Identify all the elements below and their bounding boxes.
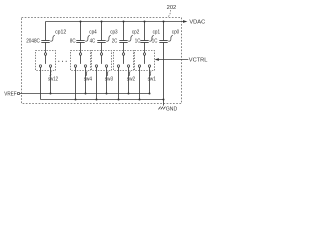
cp0 top plate bbox=[159, 40, 167, 42]
capacitor cp2 value 2C bbox=[112, 22, 140, 45]
svg-text:sw2: sw2 bbox=[127, 77, 135, 83]
capacitor cp3 value 4C bbox=[90, 22, 118, 45]
junction node on ground bus bbox=[139, 99, 141, 101]
cp12 bottom plate bbox=[41, 42, 49, 44]
sw4 throw terminal to VREF bus bbox=[84, 65, 86, 67]
wire rail to cp12 top plate bbox=[45, 22, 47, 41]
leader line from 202 to block bbox=[168, 10, 171, 17]
capacitor cp4 value 8C bbox=[70, 22, 97, 45]
leader hook for cp2 bbox=[128, 35, 133, 41]
junction node cp0 on rail bbox=[163, 21, 165, 23]
sw12 pole lever bbox=[45, 55, 47, 64]
cp2 top plate bbox=[119, 40, 127, 42]
wire VCTRL bbox=[159, 59, 189, 61]
junction node on VREF bus bbox=[50, 93, 52, 95]
leader hook for cp12 bbox=[50, 35, 55, 41]
sw2 pole lever bbox=[123, 55, 125, 64]
wire sw2 left throw to ground bus bbox=[118, 67, 120, 99]
wire sw12 right throw to VREF bus bbox=[50, 67, 52, 93]
svg-text:sw12: sw12 bbox=[48, 77, 58, 83]
wire cp0 bottom plate down to ground bbox=[163, 43, 165, 106]
wire sw4 left throw to ground bus bbox=[75, 67, 77, 99]
junction node on VREF bus bbox=[85, 93, 87, 95]
junction node on VREF bus bbox=[149, 93, 151, 95]
dashed box of sw12 bbox=[36, 51, 56, 71]
junction node on VREF bus bbox=[106, 93, 108, 95]
wire rail to cp0 top plate bbox=[163, 22, 165, 41]
sw4 common terminal bbox=[79, 53, 81, 55]
wire rail to cp1 top plate bbox=[144, 22, 146, 41]
sw3 throw terminal to VREF bus bbox=[105, 65, 107, 67]
leader hook for sw12 bbox=[50, 72, 52, 76]
svg-text:sw3: sw3 bbox=[105, 77, 113, 83]
leader hook for cp1 bbox=[149, 35, 154, 41]
svg-text:sw4: sw4 bbox=[84, 77, 92, 83]
capacitor cp12 value 2048C bbox=[26, 22, 66, 45]
svg-text:VREF: VREF bbox=[4, 91, 17, 97]
cp2 bottom plate bbox=[119, 42, 127, 44]
sw4 pole lever bbox=[80, 55, 82, 64]
cp1 bottom plate bbox=[140, 42, 148, 44]
svg-text:cp12: cp12 bbox=[55, 29, 66, 35]
svg-text:VDAC: VDAC bbox=[189, 20, 205, 26]
dashed box of sw4 bbox=[71, 51, 91, 71]
sw12 throw terminal to VREF bus bbox=[49, 65, 51, 67]
svg-text:202: 202 bbox=[167, 5, 177, 11]
wire cp2 bottom plate to switch common bbox=[123, 43, 125, 53]
sw3 common terminal bbox=[100, 53, 102, 55]
svg-text:cp4: cp4 bbox=[89, 29, 97, 35]
svg-text:GND: GND bbox=[166, 107, 177, 113]
VDAC output arrowhead bbox=[183, 20, 187, 23]
svg-text:8C: 8C bbox=[70, 38, 76, 44]
leader hook for sw2 bbox=[128, 72, 130, 76]
leader hook for sw4 bbox=[85, 72, 87, 76]
cp1 top plate bbox=[140, 40, 148, 42]
switch sw12 bbox=[36, 51, 59, 100]
wire sw1 right throw to VREF bus bbox=[149, 67, 151, 93]
capacitor cp0 value 1C bbox=[152, 22, 180, 45]
junction node cp4 on rail bbox=[80, 21, 82, 23]
switch sw2 bbox=[114, 51, 136, 101]
sw1 pole lever bbox=[144, 55, 146, 64]
junction node on VREF bus bbox=[128, 93, 130, 95]
svg-text:1C: 1C bbox=[152, 38, 158, 44]
sw3 throw terminal to ground bus bbox=[95, 65, 97, 67]
dashed box of sw2 bbox=[114, 51, 134, 71]
sw1 throw terminal to VREF bus bbox=[148, 65, 150, 67]
junction node cp2 on rail bbox=[123, 21, 125, 23]
wire sw12 left throw to ground bus bbox=[40, 67, 42, 99]
sw12 common terminal bbox=[44, 53, 46, 55]
svg-text:1C: 1C bbox=[135, 38, 141, 44]
switch sw4 bbox=[71, 51, 93, 101]
svg-text:cp0: cp0 bbox=[172, 29, 180, 35]
sw2 throw terminal to ground bus bbox=[117, 65, 119, 67]
cp3 top plate bbox=[97, 40, 105, 42]
svg-text:cp2: cp2 bbox=[132, 29, 140, 35]
cp12 top plate bbox=[41, 40, 49, 42]
wire VREF bus bbox=[20, 93, 150, 95]
junction node ground bus / cp0 bbox=[163, 99, 165, 101]
sw12 throw terminal to ground bus bbox=[39, 65, 41, 67]
VREF input terminal bbox=[17, 92, 19, 94]
switch sw1 bbox=[135, 51, 157, 101]
wire sw2 right throw to VREF bus bbox=[128, 67, 130, 93]
svg-text:2048C: 2048C bbox=[26, 38, 40, 44]
dashed box of sw3 bbox=[92, 51, 112, 71]
leader hook for sw3 bbox=[106, 72, 108, 76]
wire sw3 right throw to VREF bus bbox=[106, 67, 108, 93]
svg-text:sw1: sw1 bbox=[148, 77, 156, 83]
junction node on ground bus bbox=[75, 99, 77, 101]
wire cp4 bottom plate to switch common bbox=[80, 43, 82, 53]
svg-text:cp3: cp3 bbox=[110, 29, 118, 35]
svg-text:cp1: cp1 bbox=[153, 29, 161, 35]
capacitor cp1 value 1C bbox=[135, 22, 160, 45]
wire sw3 left throw to ground bus bbox=[96, 67, 98, 99]
wire cp1 bottom plate to switch common bbox=[144, 43, 146, 53]
wire cp3 bottom plate to switch common bbox=[101, 43, 103, 53]
sw1 throw terminal to ground bus bbox=[138, 65, 140, 67]
VCTRL control arrowhead bbox=[155, 58, 159, 61]
cp0 bottom plate bbox=[159, 42, 167, 44]
wire rail to cp3 top plate bbox=[101, 22, 103, 41]
wire rail to cp4 top plate bbox=[80, 22, 82, 41]
leader hook for cp3 bbox=[106, 35, 111, 41]
sw2 common terminal bbox=[122, 53, 124, 55]
wire sw4 right throw to VREF bus bbox=[85, 67, 87, 93]
cp4 bottom plate bbox=[76, 42, 84, 44]
dashed box of sw1 bbox=[135, 51, 155, 71]
dashed outline of CDAC block 202 bbox=[22, 18, 182, 104]
cp3 bottom plate bbox=[97, 42, 105, 44]
wire: common top-plate rail to VDAC bbox=[46, 21, 184, 23]
wire ground bus bbox=[41, 99, 164, 101]
sw3 pole lever bbox=[101, 55, 103, 64]
leader hook for cp4 bbox=[85, 35, 90, 41]
junction node cp1 on rail bbox=[144, 21, 146, 23]
leader hook for sw1 bbox=[149, 72, 151, 76]
wire sw1 left throw to ground bus bbox=[139, 67, 141, 99]
svg-text:VCTRL: VCTRL bbox=[189, 58, 208, 64]
junction node on ground bus bbox=[118, 99, 120, 101]
leader hook for cp0 bbox=[168, 35, 173, 41]
switch sw3 bbox=[92, 51, 114, 101]
sw1 common terminal bbox=[143, 53, 145, 55]
svg-text:2C: 2C bbox=[112, 38, 118, 44]
wire rail to cp2 top plate bbox=[123, 22, 125, 41]
wire cp12 bottom plate to switch common bbox=[45, 43, 47, 53]
cp4 top plate bbox=[76, 40, 84, 42]
junction node cp3 on rail bbox=[101, 21, 103, 23]
junction node on ground bus bbox=[96, 99, 98, 101]
ground symbol bbox=[158, 107, 165, 110]
sw2 throw terminal to VREF bus bbox=[127, 65, 129, 67]
sw4 throw terminal to ground bus bbox=[74, 65, 76, 67]
svg-text:4C: 4C bbox=[90, 38, 96, 44]
ellipsis for omitted cells bbox=[58, 61, 66, 62]
